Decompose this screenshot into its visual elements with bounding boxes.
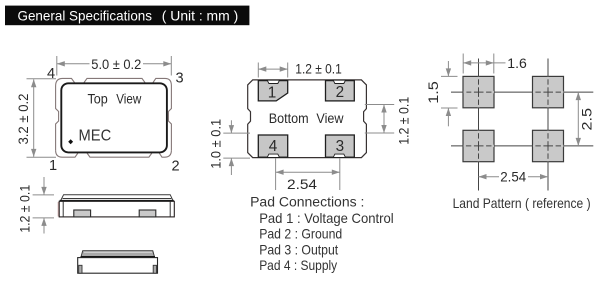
MEC logo mark (diamond): [68, 139, 73, 144]
title bar: [5, 6, 249, 26]
svg-text:2.54: 2.54: [500, 170, 526, 186]
bottom view body outline: [248, 80, 367, 158]
end view pad right: [153, 265, 156, 273]
side view pad left: [74, 210, 91, 217]
svg-text:1.2 ± 0.1: 1.2 ± 0.1: [18, 185, 34, 233]
dimension 1.6 (land): [463, 54, 505, 74]
dimension 1.2±0.1 (bottom view top): [258, 63, 287, 78]
svg-text:1.6: 1.6: [507, 56, 527, 72]
svg-text:Bottom: Bottom: [269, 111, 309, 126]
land square TL: [463, 76, 494, 107]
svg-text:1.5: 1.5: [426, 81, 442, 104]
side view body: [59, 201, 174, 217]
svg-text:View: View: [316, 111, 343, 126]
dimension 2.54 (land): [479, 176, 500, 178]
package outer outline (top view): [56, 78, 172, 157]
land square BL: [463, 130, 494, 161]
pad 4: [258, 135, 287, 157]
svg-text:2.5: 2.5: [580, 108, 596, 131]
svg-text:5.0 ± 0.2: 5.0 ± 0.2: [91, 57, 141, 73]
svg-text:1.0 ± 0.1: 1.0 ± 0.1: [209, 119, 225, 169]
svg-text:Top: Top: [88, 92, 108, 107]
svg-text:2.54: 2.54: [287, 177, 317, 193]
svg-text:View: View: [116, 92, 141, 107]
pad 1 (chamfered): [258, 81, 287, 101]
svg-text:3.2 ± 0.2: 3.2 ± 0.2: [16, 93, 32, 144]
dimension 1.2±0.1 (bottom view right): [365, 105, 394, 134]
svg-text:3: 3: [175, 71, 183, 87]
svg-text:1: 1: [49, 158, 57, 174]
dimension 2.5 (land): [577, 92, 579, 146]
side view red tint edge: [57, 202, 59, 217]
svg-text:MEC: MEC: [79, 127, 112, 144]
dimension 1.0±0.1 (bottom view left): [223, 120, 250, 175]
package lid (top view, thick rounded rect): [61, 83, 167, 152]
centerlines: [451, 59, 593, 191]
dimension 1.2±0.1 (side view): [33, 177, 54, 234]
dimension 3.2±0.2: [27, 79, 57, 157]
side view pad right: [139, 210, 156, 217]
svg-text:Pad 1 : Voltage Control: Pad 1 : Voltage Control: [259, 210, 394, 226]
svg-text:Pad 4 : Supply: Pad 4 : Supply: [259, 257, 337, 273]
svg-text:2: 2: [171, 158, 179, 174]
svg-text:4: 4: [47, 66, 55, 82]
svg-text:( Unit : mm ): ( Unit : mm ): [162, 8, 238, 23]
castellation notch pad3: [333, 154, 345, 157]
svg-text:1.2 ± 0.1: 1.2 ± 0.1: [397, 97, 413, 145]
svg-text:Pad 2 : Ground: Pad 2 : Ground: [259, 226, 342, 242]
dimension 2.54 (bottom view): [276, 159, 340, 191]
svg-text:1.2 ± 0.1: 1.2 ± 0.1: [295, 62, 342, 78]
svg-text:2: 2: [336, 84, 345, 101]
svg-text:4: 4: [269, 138, 278, 155]
pad 3: [326, 135, 355, 157]
svg-text:Land Pattern ( reference ): Land Pattern ( reference ): [453, 195, 591, 211]
centerline dash gaps: [464, 77, 564, 161]
side view lid: [60, 195, 173, 201]
dimension 5.0±0.2: [57, 56, 172, 76]
svg-text:1: 1: [268, 85, 277, 102]
end view lid: [81, 251, 155, 258]
side view end cap lines: [62, 201, 64, 217]
castellation notch pad1: [267, 80, 279, 83]
end view pad left: [79, 265, 82, 273]
svg-text:Pad Connections :: Pad Connections :: [250, 195, 364, 211]
pad 2: [326, 81, 355, 101]
castellation notch pad4: [267, 154, 279, 157]
land square BR: [533, 130, 564, 161]
land square TR: [533, 76, 564, 107]
castellation notch pad2: [333, 80, 345, 83]
svg-text:3: 3: [336, 138, 345, 155]
dimension 1.5 (land): [441, 61, 458, 126]
svg-text:General Specifications: General Specifications: [18, 8, 153, 23]
svg-text:Pad 3 : Output: Pad 3 : Output: [259, 241, 338, 257]
end view body: [78, 258, 158, 274]
